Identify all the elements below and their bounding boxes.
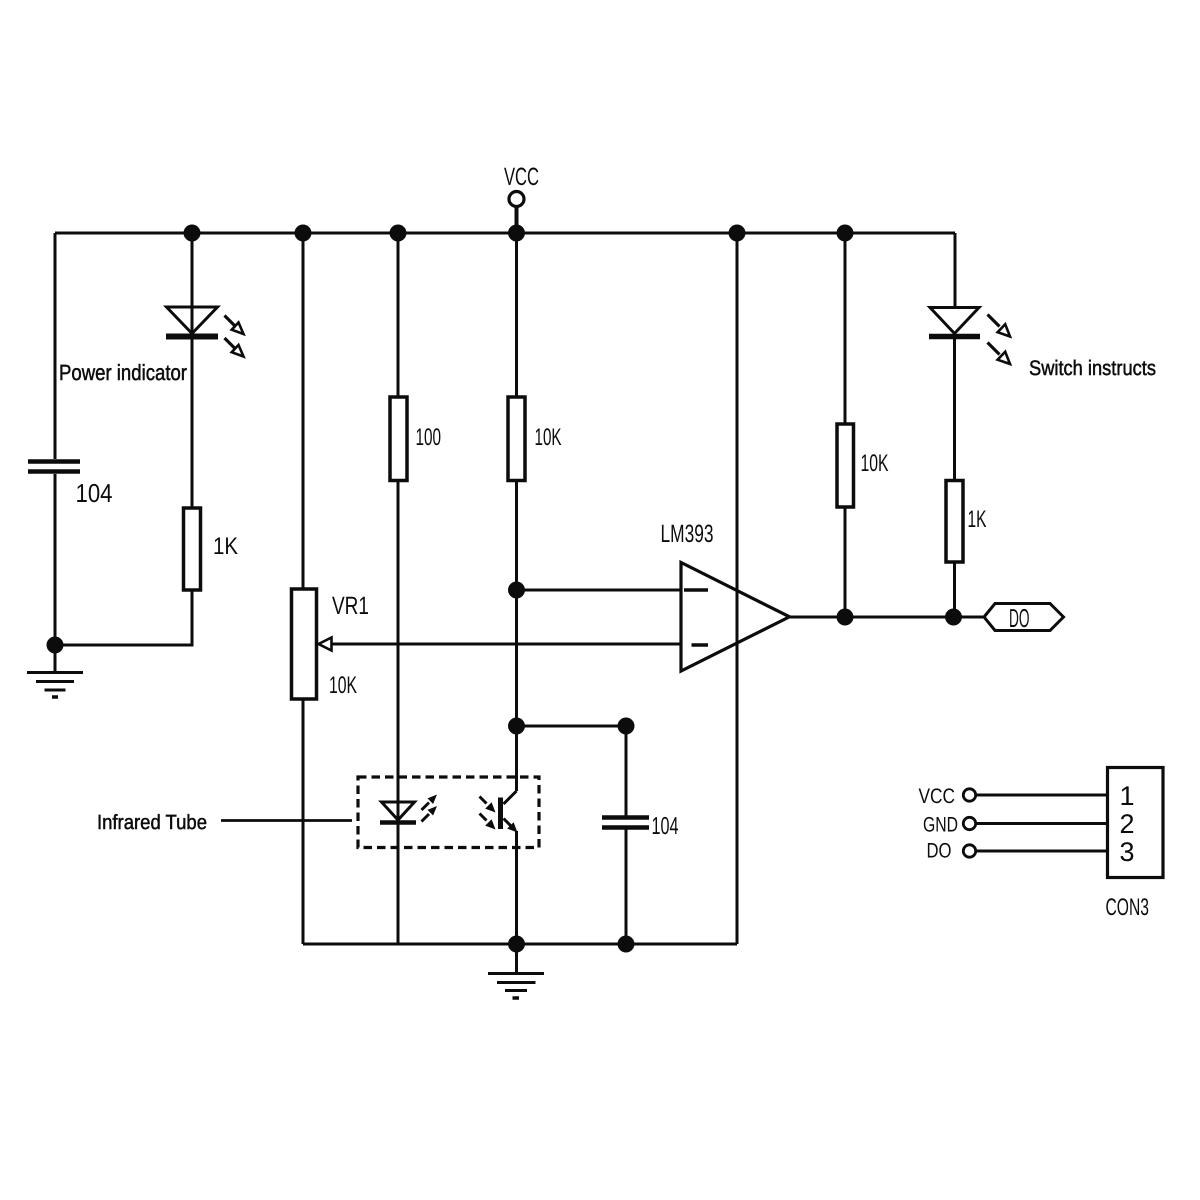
svg-text:Power indicator: Power indicator: [59, 360, 187, 385]
resistor R1 100: [390, 397, 407, 481]
svg-text:10K: 10K: [535, 424, 562, 451]
potentiometer VR1 body: [292, 589, 317, 699]
svg-text:VCC: VCC: [504, 163, 539, 191]
wire inverting input from VR1: [332, 643, 682, 646]
wire pin DO: [976, 850, 1108, 853]
wire pin VCC: [976, 794, 1108, 797]
phototransistor Q1 light arrow lower: [480, 814, 496, 830]
phototransistor Q1 emitter lead with arrow: [504, 819, 518, 833]
wire R3 bottom to transistor: [515, 481, 518, 792]
svg-text:VCC: VCC: [919, 785, 956, 808]
phototransistor Q1 collector lead: [504, 791, 517, 804]
svg-text:10K: 10K: [329, 672, 357, 699]
resistor R4 1K: [946, 481, 963, 563]
junction dot bottom ground node: [508, 936, 525, 953]
svg-text:10K: 10K: [861, 450, 889, 477]
wire right 10K top: [844, 233, 847, 424]
wire output from op-amp: [790, 616, 985, 619]
phototransistor Q1 light arrow upper: [480, 797, 496, 813]
svg-text:VR1: VR1: [332, 592, 369, 620]
phototransistor Q1 base bar: [498, 798, 503, 830]
wire top rail corner to D2: [954, 233, 957, 307]
VR1 wiper arrow: [319, 638, 332, 651]
svg-text:100: 100: [416, 424, 442, 451]
junction dot right 10K branch: [837, 225, 854, 242]
IR LED emission arrow lower: [422, 806, 438, 822]
junction dot C3 top node: [618, 718, 635, 735]
ground left: [27, 645, 83, 697]
junction dot output R 10K: [837, 609, 854, 626]
LED D2 emission arrow upper: [988, 315, 1011, 337]
wire D2 cathode to R4: [953, 337, 956, 481]
pin GND terminal circle: [963, 817, 975, 829]
wire R1 top: [397, 233, 400, 397]
svg-text:LM393: LM393: [661, 520, 714, 548]
junction dot right vertical branch: [729, 225, 746, 242]
wire VCC stub: [515, 207, 519, 234]
wire right 10K bottom: [844, 507, 847, 617]
IR LED emission arrow upper: [422, 795, 438, 811]
op-amp minus input dash: [692, 643, 709, 647]
wire top power rail: [55, 232, 955, 235]
capacitor C3: [602, 818, 649, 828]
infrared tube dashed box: [358, 777, 539, 848]
svg-text:104: 104: [76, 478, 113, 508]
pin DO terminal circle: [963, 845, 975, 857]
IR LED D3: [380, 802, 416, 823]
junction dot output R 1K: [945, 609, 962, 626]
wire D1 cathode to R2: [191, 339, 194, 508]
LED D2: [929, 308, 980, 337]
wire Q1 emitter to bottom rail: [515, 831, 518, 944]
wire left rail upper: [54, 233, 57, 459]
junction dot VCC entry: [508, 225, 525, 242]
wire D1 anode: [191, 233, 194, 339]
wire left rail lower: [54, 474, 57, 645]
wire R2 bottom to ground node: [55, 590, 192, 645]
VCC terminal circle: [509, 192, 524, 207]
LED D1 emission arrow lower: [225, 338, 244, 357]
junction dot D1 branch: [184, 225, 201, 242]
wire pin GND: [976, 822, 1108, 825]
wire center 10K top: [515, 233, 518, 397]
op-amp U1 LM393: [681, 563, 790, 672]
junction dot R 100 branch: [390, 225, 407, 242]
resistor R2 1K: [184, 508, 201, 590]
LED D1 emission arrow upper: [225, 316, 244, 335]
pin VCC terminal circle: [963, 789, 975, 801]
wire R4 bottom to output: [953, 562, 956, 617]
wire VR1 top: [302, 233, 305, 589]
wire bottom rail: [303, 943, 737, 946]
port DO hexagon: [984, 604, 1064, 631]
capacitor C1: [28, 462, 80, 472]
svg-text:1: 1: [1119, 781, 1134, 811]
op-amp plus input dash: [684, 588, 708, 592]
svg-text:CON3: CON3: [1106, 894, 1150, 921]
junction dot collector node: [508, 718, 525, 735]
wire C3 top: [625, 726, 628, 816]
wire VR1 bottom: [302, 699, 305, 944]
resistor R5 10K: [837, 424, 854, 507]
wire collector node to C3: [517, 725, 627, 728]
svg-text:DO: DO: [927, 840, 952, 863]
svg-text:2: 2: [1119, 809, 1134, 839]
wire R1 bottom to IR LED: [397, 481, 400, 821]
leader line to infrared tube box: [221, 819, 352, 822]
wire right vertical branch: [736, 233, 739, 944]
LED D2 emission arrow lower: [988, 343, 1011, 365]
junction dot left ground node: [47, 637, 64, 654]
ground bottom: [488, 944, 544, 998]
svg-text:1K: 1K: [968, 506, 987, 533]
svg-text:3: 3: [1119, 837, 1134, 867]
svg-text:Infrared Tube: Infrared Tube: [97, 811, 207, 834]
resistor R3 10K: [508, 397, 525, 481]
wire IR LED cathode to bottom rail: [397, 823, 400, 945]
LED D1: [166, 307, 218, 337]
svg-text:GND: GND: [923, 814, 958, 837]
wire C3 bottom: [625, 830, 628, 945]
svg-text:DO: DO: [1009, 603, 1030, 633]
junction dot C3 bottom node: [618, 936, 635, 953]
svg-text:104: 104: [652, 813, 679, 840]
svg-text:Switch instructs: Switch instructs: [1029, 357, 1156, 380]
junction dot non-inverting node: [508, 582, 525, 599]
junction dot VR1 branch: [295, 225, 312, 242]
connector CON3 body: [1108, 768, 1164, 878]
wire to op-amp plus input: [517, 589, 682, 592]
svg-text:1K: 1K: [213, 533, 238, 560]
